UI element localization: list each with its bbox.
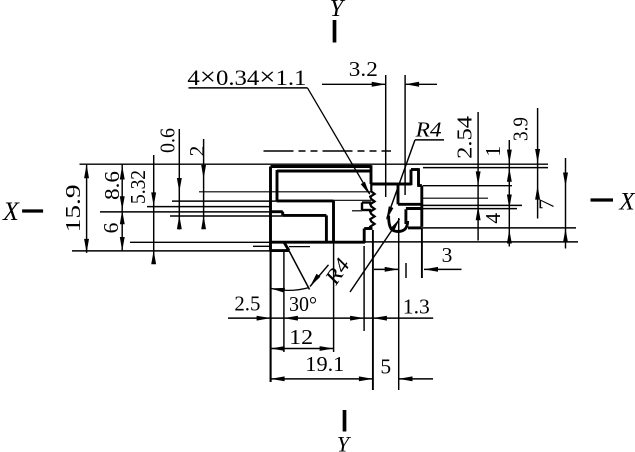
svg-text:15.9: 15.9: [61, 184, 85, 232]
svg-text:5: 5: [380, 355, 391, 379]
svg-text:7: 7: [535, 199, 559, 210]
svg-text:X: X: [2, 197, 20, 226]
svg-text:1: 1: [481, 146, 505, 157]
svg-text:0.6: 0.6: [156, 128, 180, 153]
svg-text:1.3: 1.3: [403, 295, 430, 319]
svg-text:5.32: 5.32: [126, 170, 150, 204]
svg-text:19.1: 19.1: [305, 352, 344, 376]
svg-text:30°: 30°: [289, 292, 317, 316]
svg-text:2: 2: [185, 146, 209, 157]
svg-text:3.9: 3.9: [508, 117, 532, 141]
svg-text:3: 3: [442, 243, 453, 267]
svg-text:12: 12: [289, 325, 313, 349]
svg-text:4: 4: [481, 213, 505, 224]
svg-text:6: 6: [99, 222, 123, 233]
svg-text:4×0.34×1.1: 4×0.34×1.1: [187, 62, 306, 91]
svg-text:2.5: 2.5: [234, 292, 260, 316]
svg-text:2.54: 2.54: [453, 116, 477, 159]
svg-text:R4: R4: [415, 118, 442, 142]
svg-text:X: X: [618, 189, 635, 216]
svg-text:3.2: 3.2: [349, 57, 378, 81]
svg-text:8.6: 8.6: [100, 171, 124, 200]
